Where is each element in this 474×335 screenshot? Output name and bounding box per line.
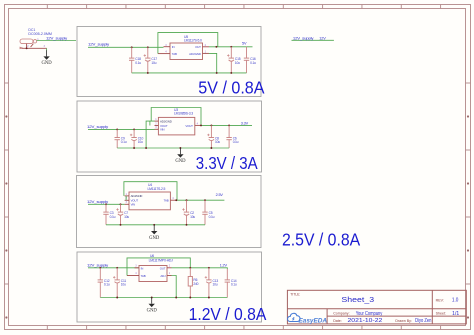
- box 1.2V regulator: [77, 252, 262, 322]
- svg-text:12V_supply: 12V_supply: [87, 125, 108, 129]
- junction rail C11: [116, 297, 118, 299]
- capacitor C7: [116, 204, 129, 225]
- ground: [147, 298, 158, 314]
- capacitor C2: [182, 200, 195, 225]
- title REV: 1.0: [436, 298, 459, 304]
- svg-text:ADJ: ADJ: [160, 274, 166, 278]
- title Drawn By: [395, 318, 431, 324]
- junction rail ADJ: [145, 147, 147, 149]
- wire 12V input to U5 IN: [88, 46, 164, 48]
- svg-text:LM1117S-2.5: LM1117S-2.5: [148, 187, 166, 191]
- title Date: [333, 318, 382, 324]
- box 5V regulator: [77, 27, 261, 97]
- connector DC1 DC005-2.0MM: [20, 28, 53, 49]
- junction rail GND: [179, 147, 181, 149]
- svg-text:ADJ/GND: ADJ/GND: [189, 52, 201, 56]
- wire 12V_supply to 12V: [292, 39, 334, 41]
- junction C5 top: [204, 199, 206, 201]
- logo EasyEDA: [288, 313, 328, 324]
- capacitor C17: [144, 47, 158, 73]
- junction jack ground: [26, 47, 28, 49]
- svg-text:Company:: Company:: [333, 312, 349, 316]
- svg-text:12V_supply: 12V_supply: [87, 263, 108, 267]
- capacitor C9: [115, 129, 127, 148]
- junction rail C2: [186, 224, 188, 226]
- svg-text:3.3V: 3.3V: [241, 121, 249, 125]
- svg-text:OUT: OUT: [195, 45, 201, 49]
- junction C13 top: [208, 267, 210, 269]
- svg-text:10u: 10u: [215, 140, 220, 144]
- junction C18: [131, 46, 133, 48]
- capacitor C15: [227, 47, 241, 73]
- wire U6 ADJ to ground rail: [172, 276, 177, 298]
- wire U5 TAB over top to OUT: [158, 33, 218, 54]
- svg-text:0.1u: 0.1u: [231, 283, 237, 287]
- junction C3: [105, 203, 107, 205]
- svg-text:Drawn By:: Drawn By:: [395, 319, 412, 323]
- svg-text:10u: 10u: [235, 61, 240, 65]
- svg-text:REV:: REV:: [436, 298, 444, 302]
- wire U6 TAB over top to OUT: [127, 258, 190, 276]
- junction VOUT pin: [200, 124, 202, 126]
- svg-text:240: 240: [193, 282, 198, 286]
- svg-text:EasyEDA: EasyEDA: [299, 317, 328, 324]
- capacitor C13: [205, 268, 219, 298]
- ground: [42, 50, 53, 66]
- svg-text:3.3V / 3A: 3.3V / 3A: [196, 153, 258, 173]
- box 3.3V regulator: [77, 101, 262, 172]
- svg-text:10u: 10u: [213, 283, 218, 287]
- wire ground rail box4: [100, 297, 227, 299]
- svg-text:10u: 10u: [151, 61, 156, 65]
- junction C6 top: [228, 124, 230, 126]
- svg-text:1.2V: 1.2V: [220, 264, 228, 268]
- svg-text:2.5V: 2.5V: [216, 193, 224, 197]
- junction rail GND: [151, 297, 153, 299]
- svg-text:2021-10-22: 2021-10-22: [348, 318, 383, 324]
- junction C11: [116, 267, 118, 269]
- regulator U4 LM1117S-2.5: [125, 183, 177, 210]
- svg-text:VIN: VIN: [160, 128, 164, 132]
- wire U4 TAB to 2.5V: [176, 199, 224, 201]
- svg-text:12V: 12V: [319, 37, 326, 41]
- svg-text:10u: 10u: [138, 140, 143, 144]
- svg-text:Sheet:: Sheet:: [436, 312, 446, 316]
- capacitor C16: [244, 47, 256, 73]
- svg-text:0.1u: 0.1u: [209, 215, 215, 219]
- wire 12V input to U4 VIN: [88, 203, 125, 205]
- capacitor C18: [129, 47, 141, 73]
- regulator U3 LM1085IS-3.3: [155, 108, 202, 135]
- svg-text:1.2V / 0.8A: 1.2V / 0.8A: [189, 304, 267, 324]
- junction C2 top: [186, 199, 188, 201]
- title Sheet 1/1: [436, 311, 460, 317]
- capacitor C6: [226, 125, 238, 148]
- junction rail C17: [147, 72, 149, 74]
- svg-text:Diyo Zen: Diyo Zen: [415, 318, 431, 324]
- svg-text:0.1u: 0.1u: [135, 61, 141, 65]
- junction C15 top: [230, 46, 232, 48]
- svg-text:VIN: VIN: [131, 203, 135, 207]
- junction rail C10: [133, 147, 135, 149]
- svg-text:GND: GND: [147, 309, 158, 314]
- svg-text:TAB: TAB: [172, 52, 177, 56]
- svg-text:0.1u: 0.1u: [110, 215, 116, 219]
- svg-text:Your Company: Your Company: [356, 311, 383, 317]
- junction C8 top: [210, 124, 212, 126]
- svg-text:12V_supply: 12V_supply: [88, 42, 109, 46]
- junction TAB loop OUT: [215, 46, 217, 48]
- svg-text:OUT: OUT: [160, 266, 166, 270]
- svg-text:0.1u: 0.1u: [104, 283, 110, 287]
- svg-text:VOUT: VOUT: [185, 124, 193, 128]
- svg-text:12V_supply: 12V_supply: [293, 37, 314, 41]
- title Company: [333, 311, 382, 317]
- svg-text:1.0: 1.0: [452, 298, 459, 304]
- capacitor C14: [225, 269, 237, 298]
- wire 12V input to U3 VIN: [88, 128, 155, 130]
- ground: [149, 225, 160, 241]
- resistor R6 240: [188, 268, 198, 298]
- svg-text:0.1u: 0.1u: [233, 140, 239, 144]
- junction rail C8: [210, 147, 212, 149]
- svg-text:TAB: TAB: [164, 199, 169, 203]
- wire ground rail box2: [117, 147, 229, 149]
- wire jack ground drop: [46, 48, 48, 50]
- junction rail R6: [189, 297, 191, 299]
- wire U5 ADJ/GND to ground rail: [209, 53, 217, 73]
- junction rail ADJ: [175, 297, 177, 299]
- junction rail C13: [208, 297, 210, 299]
- junction rail GND: [153, 224, 155, 226]
- box 2.5V regulator: [77, 176, 262, 248]
- junction rail ADJ: [216, 72, 218, 74]
- svg-text:LM1117S-5.0: LM1117S-5.0: [184, 39, 202, 43]
- junction C7: [120, 203, 122, 205]
- svg-text:ADJ/GND: ADJ/GND: [160, 119, 172, 123]
- title block: [287, 290, 466, 324]
- regulator U6 LM1117MPX-ADJ: [127, 254, 173, 281]
- regulator U5 LM1117S-5.0: [158, 35, 209, 60]
- svg-text:LM1085IS-3.3: LM1085IS-3.3: [174, 112, 193, 116]
- capacitor C3: [103, 204, 115, 225]
- capacitor C11: [113, 268, 126, 298]
- wire 12V input to U6 IN: [88, 267, 139, 269]
- svg-text:Sheet_3: Sheet_3: [341, 295, 374, 304]
- svg-text:10u: 10u: [124, 215, 129, 219]
- svg-text:5V: 5V: [242, 42, 247, 46]
- svg-text:10u: 10u: [121, 283, 126, 287]
- wire U3 VOUT jog: [149, 121, 151, 125]
- junction C10: [133, 128, 135, 130]
- capacitor C10: [130, 129, 144, 148]
- junction C9: [116, 128, 118, 130]
- wire U4 VOUT jog: [125, 196, 127, 200]
- junction TAB: [175, 199, 177, 201]
- svg-text:GND: GND: [42, 61, 53, 66]
- wire U6 OUT to 1.2V: [172, 268, 228, 269]
- svg-text:1/1: 1/1: [452, 311, 459, 317]
- wire DC1 to 12V_supply: [37, 40, 76, 42]
- junction C12: [99, 267, 101, 269]
- wire U5 OUT to 5V: [209, 46, 253, 48]
- wire U3 ADJ/GND to ground rail: [146, 121, 154, 148]
- svg-text:Date:: Date:: [333, 319, 342, 323]
- wire ground rail box1: [132, 72, 247, 74]
- wire ground rail box3: [106, 224, 205, 226]
- junction rail C7: [120, 224, 122, 226]
- ground: [175, 148, 186, 164]
- svg-text:10u: 10u: [190, 215, 195, 219]
- junction R6 top: [189, 267, 191, 269]
- svg-text:2.5V / 0.8A: 2.5V / 0.8A: [282, 230, 361, 250]
- svg-text:TAB: TAB: [141, 274, 146, 278]
- svg-text:12V_supply: 12V_supply: [46, 36, 67, 40]
- svg-text:ADJ/GND: ADJ/GND: [131, 194, 143, 198]
- svg-text:5V / 0.8A: 5V / 0.8A: [198, 78, 265, 98]
- capacitor C12: [98, 268, 110, 298]
- svg-text:IN: IN: [141, 266, 144, 270]
- capacitor C8: [207, 125, 220, 148]
- junction C17: [147, 46, 149, 48]
- wire U3 loop over top: [151, 108, 201, 126]
- capacitor C5: [202, 200, 214, 225]
- svg-text:IN: IN: [172, 45, 175, 49]
- wire U4 loop over top: [124, 182, 177, 201]
- svg-text:LM1117MPX-ADJ: LM1117MPX-ADJ: [149, 258, 174, 262]
- svg-text:GND: GND: [175, 159, 186, 164]
- svg-text:12V_supply: 12V_supply: [87, 200, 108, 204]
- svg-text:0.1u: 0.1u: [121, 140, 127, 144]
- svg-text:TITLE:: TITLE:: [290, 292, 300, 296]
- wire U3 VOUT to 3.3V: [201, 124, 252, 126]
- junction rail C15: [230, 72, 232, 74]
- svg-text:GND: GND: [149, 236, 160, 241]
- svg-text:0.1u: 0.1u: [250, 61, 256, 65]
